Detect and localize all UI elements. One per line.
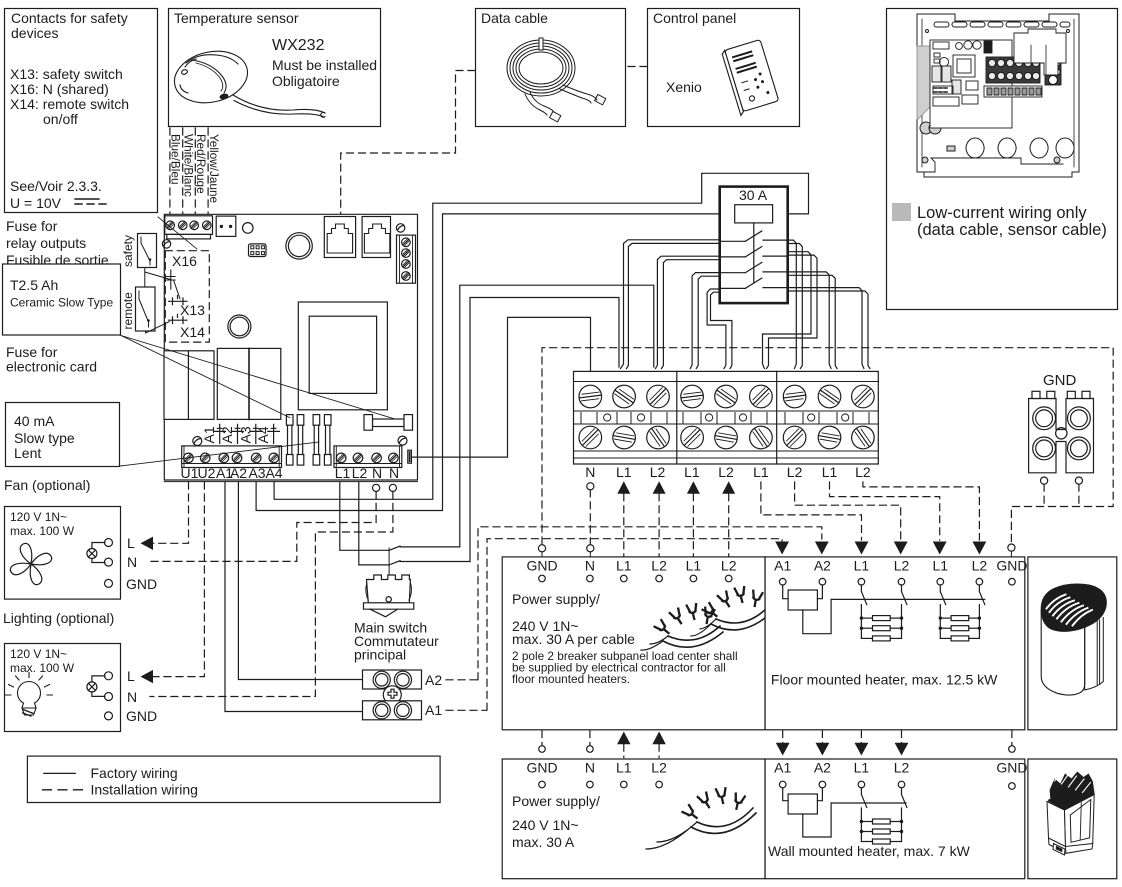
wire A2 riser to connector A2	[238, 482, 362, 680]
svg-text:U = 10V: U = 10V	[10, 195, 62, 211]
svg-text:L2: L2	[352, 465, 368, 481]
wire switch output 1 to L2 terminal	[460, 285, 654, 547]
PCB right screw terminal	[397, 235, 416, 283]
legend box	[27, 756, 440, 802]
svg-text:N: N	[389, 465, 399, 481]
wire X16 to X13	[174, 280, 181, 299]
control panel Xenio drawing	[721, 40, 779, 116]
svg-text:A4: A4	[265, 465, 282, 481]
svg-text:X14: X14	[180, 324, 205, 340]
svg-text:max. 30 A per cable: max. 30 A per cable	[512, 631, 635, 647]
GND circle floor heater	[1008, 544, 1015, 551]
fan terminal N	[105, 558, 113, 566]
svg-text:L2: L2	[718, 464, 734, 480]
wire A1 riser to connector A1	[225, 482, 363, 712]
svg-text:WX232: WX232	[272, 37, 325, 54]
lighting lamp symbol	[87, 676, 105, 697]
svg-text:U1: U1	[181, 465, 199, 481]
svg-text:Wall mounted heater, max. 7 kW: Wall mounted heater, max. 7 kW	[768, 843, 971, 859]
svg-text:A3: A3	[248, 465, 265, 481]
svg-text:L2: L2	[855, 464, 871, 480]
breaker tie bar	[753, 223, 755, 283]
leader line T2.5 box to fuse F3	[121, 336, 395, 420]
wire L2 to main switch lower contact	[359, 482, 389, 565]
GND circle between rows	[541, 731, 543, 746]
lighting terminal labels	[126, 668, 157, 724]
svg-text:Slow type: Slow type	[14, 430, 75, 446]
PCB right edge component	[408, 450, 412, 463]
PCB N terminal stub circle 1	[373, 484, 380, 491]
svg-text:Red/Rouge: Red/Rouge	[194, 134, 208, 194]
fuse for relay outputs label	[6, 218, 109, 268]
svg-text:N: N	[585, 760, 595, 776]
L2 arrow up between rows	[652, 732, 665, 745]
arrow power feed up into block column x=623.8	[617, 481, 630, 494]
N column circle below block	[587, 483, 594, 490]
svg-text:X14: remote switch: X14: remote switch	[10, 96, 129, 112]
svg-text:safety: safety	[121, 235, 135, 267]
sensor wire labels	[169, 134, 221, 204]
svg-text:L1: L1	[753, 464, 769, 480]
arrow power feed up into block column x=693.4	[687, 481, 700, 494]
wire L1 to main switch upper contact	[340, 482, 389, 550]
breaker body rect	[735, 205, 773, 223]
PCB top-right screw	[396, 224, 404, 232]
svg-text:L2: L2	[650, 464, 666, 480]
svg-text:floor mounted heaters.: floor mounted heaters.	[512, 672, 630, 686]
PCB pin post A4	[268, 424, 280, 443]
PCB N terminal stub circle 2	[389, 484, 396, 491]
lighting info box	[5, 644, 121, 732]
svg-text:L1: L1	[822, 464, 838, 480]
svg-text:X16: N (shared): X16: N (shared)	[10, 81, 109, 97]
svg-text:L2: L2	[972, 558, 988, 574]
svg-text:A1: A1	[774, 558, 791, 574]
PCB top-left screw	[162, 240, 170, 248]
wire N power supply to block (dashed)	[589, 490, 591, 545]
PCB output terminal U1 U2 A1 A2 A3 A4	[182, 446, 282, 468]
floor heater element group 1	[860, 605, 904, 641]
fuse F1 relay output fuse a	[286, 415, 293, 466]
arrow feed down into wall heater x=861.4	[860, 731, 862, 744]
svg-text:devices: devices	[11, 25, 58, 41]
svg-text:GND: GND	[1043, 372, 1077, 389]
svg-text:U2: U2	[198, 465, 216, 481]
breaker pole 4	[720, 278, 788, 288]
PCB RJ jack 1	[324, 217, 355, 258]
GND wire right circle riser (dashed)	[1078, 484, 1080, 506]
control unit cable glands illustration	[947, 138, 1074, 158]
svg-text:on/off: on/off	[43, 111, 78, 127]
PCB small circle	[243, 223, 254, 234]
wire block column to floor heater (dashed step 1)	[761, 482, 862, 540]
PCB RJ jack 2	[362, 217, 390, 258]
svg-text:120 V 1N~: 120 V 1N~	[10, 647, 67, 661]
svg-text:Data cable: Data cable	[481, 10, 548, 26]
svg-text:L1: L1	[616, 464, 632, 480]
floor heater element group 2	[939, 605, 982, 641]
svg-text:Fuse for: Fuse for	[6, 218, 58, 234]
svg-text:Temperature sensor: Temperature sensor	[174, 10, 299, 26]
GND wall heater circle above box	[1011, 731, 1013, 746]
control panel info box	[648, 9, 800, 127]
wire block column to floor heater (dashed step 3)	[830, 482, 940, 540]
fan terminal L	[105, 539, 113, 547]
svg-text:L2: L2	[651, 558, 667, 574]
control PCB outline	[164, 214, 417, 481]
svg-text:max. 30 A: max. 30 A	[512, 834, 575, 850]
fan lamp symbol	[87, 543, 105, 563]
svg-text:Power supply/: Power supply/	[512, 591, 600, 607]
fan terminal labels	[126, 535, 157, 592]
svg-text:A1: A1	[774, 760, 791, 776]
PCB 6-pin header	[249, 244, 267, 257]
arrow A1 into floor heater	[775, 542, 789, 555]
main switch label	[354, 620, 439, 663]
GND block output circles	[1041, 477, 1048, 484]
feeder pair L2 column to breaker pole 2	[656, 256, 720, 368]
fan icon	[4, 537, 58, 591]
control unit enclosure illustration	[917, 14, 1079, 177]
fuse F1 relay output fuse b	[297, 415, 304, 466]
svg-text:A2: A2	[230, 465, 247, 481]
svg-text:GND: GND	[526, 760, 557, 776]
svg-text:A1: A1	[425, 702, 442, 718]
data cable coil drawing	[507, 38, 606, 122]
leader line 40mA box to fuse F2	[120, 442, 319, 466]
lighting terminal GND	[105, 712, 113, 720]
svg-text:X13: safety switch: X13: safety switch	[10, 66, 123, 82]
sensor wire Yellow/Jaune (dashed)	[207, 128, 209, 215]
fuse F3 horizontal fuse	[364, 415, 413, 431]
GND route dashed separator	[542, 348, 1113, 544]
connector A1	[363, 701, 422, 720]
wall heater switch blade at 861.4	[861, 788, 866, 808]
fuse F2 electronic card fuse b	[324, 415, 331, 466]
wire safety to remote	[144, 268, 146, 288]
svg-text:Power supply/: Power supply/	[512, 793, 600, 809]
floor heater image box	[1028, 557, 1117, 730]
safety switch contact	[138, 234, 157, 268]
low-current wiring legend text	[917, 204, 1107, 239]
svg-text:Yellow/Jaune: Yellow/Jaune	[207, 134, 221, 204]
svg-text:X13: X13	[180, 302, 205, 318]
PCB bottom-right screw	[398, 436, 407, 445]
main switch lower contact	[389, 561, 470, 565]
feeder pair L1b column to breaker pole 3	[690, 273, 720, 369]
sensor wire White/Blanc (dashed)	[182, 128, 184, 215]
wire A4 riser over 30A box to breaker right	[274, 173, 808, 499]
svg-text:A2: A2	[425, 672, 442, 688]
floor heater drawing	[1041, 584, 1107, 695]
svg-text:(data cable, sensor cable): (data cable, sensor cable)	[917, 221, 1107, 239]
svg-text:X16: X16	[172, 253, 197, 269]
svg-text:electronic card: electronic card	[6, 359, 97, 375]
PCB round capacitor	[228, 315, 251, 338]
main switch upper contact	[389, 546, 460, 550]
svg-text:L1: L1	[933, 558, 949, 574]
svg-text:A3: A3	[237, 426, 253, 443]
svg-text:L1: L1	[854, 760, 870, 776]
dashed wire data cable box to PCB RJ jack	[341, 71, 475, 215]
temperature sensor WX232 drawing	[169, 44, 325, 117]
floor heater contact bus	[831, 598, 985, 600]
svg-text:Must be installed: Must be installed	[272, 57, 377, 73]
X13 jumper pin	[169, 296, 188, 305]
svg-text:Floor mounted heater, max. 12.: Floor mounted heater, max. 12.5 kW	[771, 672, 998, 688]
svg-text:A2: A2	[814, 558, 831, 574]
connector A2	[363, 670, 422, 689]
svg-text:max. 100 W: max. 100 W	[10, 524, 75, 538]
svg-text:Low-current wiring only: Low-current wiring only	[917, 204, 1087, 222]
svg-text:T2.5 Ah: T2.5 Ah	[10, 277, 58, 293]
terminal block screws row 1	[574, 381, 874, 413]
PCB bottom-left screw	[193, 437, 202, 446]
L1 arrow up between rows	[617, 732, 630, 745]
svg-text:remote: remote	[121, 292, 135, 330]
wire N1 to fan N (dashed)	[150, 492, 376, 562]
svg-text:120 V 1N~: 120 V 1N~	[10, 510, 67, 524]
X14 jumper pin	[169, 314, 188, 323]
svg-text:L: L	[127, 668, 135, 684]
fuse F2 electronic card fuse a	[313, 415, 320, 466]
PCB pin post A3	[250, 424, 262, 443]
wire block column to floor heater (dashed step 4)	[863, 482, 980, 540]
supply terminal block	[574, 371, 879, 464]
gray legend swatch	[892, 203, 911, 221]
wire A3 riser to breaker left	[256, 214, 735, 511]
PCB toroid coil	[286, 233, 312, 259]
svg-text:Xenio: Xenio	[666, 79, 702, 95]
wire N supply from PCB to terminal block N	[412, 317, 591, 457]
lighting L arrowhead	[141, 670, 154, 683]
data cable info box	[476, 9, 626, 127]
N supply circle	[587, 545, 594, 552]
wire switch output 2 to L1 terminal	[470, 298, 619, 562]
wall heater drawing	[1047, 772, 1095, 856]
control unit contactor illustration	[1014, 29, 1066, 75]
wire U2 to lighting L (dashed)	[152, 482, 204, 677]
arrow A2 into floor heater	[815, 542, 829, 555]
svg-text:GND: GND	[526, 558, 557, 574]
load pair breaker pole 2 to L1c column	[763, 252, 812, 369]
svg-text:240 V 1N~: 240 V 1N~	[512, 817, 579, 833]
svg-text:A1: A1	[201, 426, 217, 443]
remote switch contact	[136, 287, 156, 331]
wall heater element group	[860, 808, 904, 844]
svg-text:See/Voir 2.3.3.: See/Voir 2.3.3.	[10, 178, 102, 194]
PCB relay block 2	[217, 348, 280, 419]
arrow feed down into wall heater x=901.5	[901, 731, 903, 744]
svg-text:relay outputs: relay outputs	[6, 235, 86, 251]
load pair breaker pole 1 to L2c column	[788, 240, 797, 368]
terminal block mid links	[581, 413, 869, 424]
breaker pole 2	[720, 247, 788, 257]
floor heater switch blade at 979.4	[979, 585, 984, 605]
svg-text:GND: GND	[126, 708, 157, 724]
GND terminal block	[1029, 391, 1094, 473]
connector plus clip	[383, 686, 401, 704]
PCB terminal labels U1 U2 A1 A2 A3 A4	[181, 465, 283, 481]
svg-text:Ceramic Slow Type: Ceramic Slow Type	[10, 296, 113, 310]
GND supply circle	[538, 545, 545, 552]
N circle between rows	[589, 731, 591, 746]
svg-text:N: N	[127, 689, 137, 705]
temperature sensor info box	[169, 9, 381, 127]
svg-text:Installation wiring: Installation wiring	[91, 782, 198, 798]
svg-text:A4: A4	[255, 426, 271, 443]
wire A1 to heater bus (dashed)	[446, 539, 782, 711]
wire A2 to heater bus (dashed)	[446, 527, 822, 680]
svg-text:30 A: 30 A	[739, 187, 768, 203]
fuse 40 mA info box	[6, 403, 120, 467]
wall heater contact bus	[831, 802, 906, 804]
X16 jumper pin	[167, 270, 176, 289]
svg-text:GND: GND	[996, 558, 1027, 574]
arrow feed down into wall heater x=782.7	[782, 731, 784, 744]
supply cable lugs drawing 1	[641, 587, 771, 650]
wire N2 to lighting N (dashed)	[150, 492, 393, 697]
arrow power feed up into block column x=728.7	[722, 481, 735, 494]
wire block column to floor heater (dashed step 2)	[795, 482, 901, 540]
svg-text:N: N	[127, 554, 137, 570]
sensor wire Red/Rouge (dashed)	[194, 128, 196, 215]
svg-text:White/Blanc: White/Blanc	[181, 134, 195, 197]
svg-text:N: N	[585, 464, 595, 480]
terminal block screws row 2	[579, 422, 876, 453]
svg-text:40 mA: 40 mA	[14, 413, 55, 429]
low-current wiring info box	[887, 9, 1118, 310]
terminal block column labels	[585, 464, 871, 480]
GND wire to floor heater (dashed)	[1043, 484, 1045, 506]
svg-text:Blue/Bleu: Blue/Bleu	[169, 134, 183, 185]
svg-text:Lent: Lent	[14, 445, 41, 461]
svg-text:L2: L2	[894, 558, 910, 574]
contacts-for-safety-devices info box	[5, 9, 158, 213]
svg-text:A2: A2	[219, 426, 235, 443]
leader line T2.5 box to fuse F1	[121, 336, 290, 418]
svg-text:Lighting (optional): Lighting (optional)	[3, 610, 114, 626]
lighting terminal N	[105, 693, 113, 701]
svg-text:L1: L1	[684, 464, 700, 480]
svg-text:L: L	[127, 535, 135, 551]
svg-text:L2: L2	[651, 760, 667, 776]
svg-text:L1: L1	[335, 465, 351, 481]
svg-text:GND: GND	[996, 760, 1027, 776]
svg-text:Factory wiring: Factory wiring	[91, 765, 178, 781]
floor heater switch blade at 861.4	[861, 585, 866, 605]
floor mounted heater box	[765, 557, 1027, 730]
wall heater contactor coil	[783, 788, 831, 837]
load pair breaker pole 3 to L1d column	[788, 272, 831, 369]
power supply box (wall heater)	[502, 759, 765, 879]
svg-text:principal: principal	[354, 647, 406, 663]
PCB pin post A2	[232, 424, 244, 443]
svg-text:L1: L1	[686, 558, 702, 574]
control unit terminal rows illustration	[984, 57, 1061, 97]
svg-text:Obligatoire: Obligatoire	[272, 73, 340, 89]
dashed link data cable to control panel	[628, 66, 647, 68]
svg-text:A2: A2	[814, 760, 831, 776]
leader line fuse label to PCB	[158, 217, 197, 249]
supply cable lugs drawing 2	[646, 788, 756, 849]
control unit inner PCB illustration	[930, 40, 1012, 128]
main switch rocker drawing	[364, 548, 414, 617]
load pair breaker pole 4 to L2d column	[788, 288, 864, 369]
wall heater switch blade at 901.5	[902, 788, 907, 808]
30A breaker box	[720, 187, 788, 304]
wall heater image box	[1028, 759, 1117, 879]
svg-text:GND: GND	[126, 576, 157, 592]
floor heater switch blade at 901.5	[902, 585, 907, 605]
wire remote to X14	[146, 322, 170, 333]
PCB transformer	[298, 302, 387, 410]
wire U1 to fan L (dashed)	[152, 482, 189, 543]
feeder pair L2b column to breaker pole 4	[707, 289, 726, 369]
wire safety to X16	[145, 272, 171, 280]
X16 X13 X14 dashed outline	[165, 251, 209, 342]
fan L arrowhead	[141, 537, 154, 550]
fuse T2.5 Ah info box	[3, 264, 121, 335]
svg-text:Contacts for safety: Contacts for safety	[11, 10, 128, 26]
PCB mains terminal L1 L2 N N	[334, 446, 402, 468]
sensor wire Blue/Bleu (dashed)	[169, 128, 171, 215]
feeder pair L1 column to breaker pole 1	[621, 240, 720, 369]
light bulb icon	[6, 673, 53, 717]
svg-text:N: N	[372, 465, 382, 481]
PCB relay block 1	[164, 351, 214, 420]
lighting terminal L	[105, 672, 113, 680]
arrow power feed up into block column x=659.1	[653, 481, 666, 494]
svg-text:L1: L1	[616, 558, 632, 574]
svg-text:N: N	[585, 558, 595, 574]
floor heater switch blade at 940.3	[940, 585, 945, 605]
wall mounted heater box	[765, 759, 1027, 879]
svg-text:max. 100 W: max. 100 W	[10, 661, 75, 675]
svg-text:L1: L1	[854, 558, 870, 574]
svg-text:Control panel: Control panel	[653, 10, 736, 26]
PCB 2-pin connector	[216, 216, 236, 236]
svg-text:L2: L2	[721, 558, 737, 574]
fuse for electronic card label	[6, 344, 97, 375]
svg-text:L1: L1	[616, 760, 632, 776]
svg-text:L2: L2	[787, 464, 803, 480]
fan info box	[5, 507, 121, 600]
breaker pole 3	[720, 262, 788, 272]
power supply box (floor heaters)	[502, 557, 765, 730]
PCB sensor terminal X-strip	[165, 216, 213, 239]
PCB terminal labels L1 L2 N N	[335, 465, 399, 481]
arrow feed down into wall heater x=822.4	[821, 731, 823, 744]
breaker pole 1	[720, 231, 788, 241]
svg-text:L2: L2	[894, 760, 910, 776]
floor heater contactor coil	[783, 585, 831, 634]
PCB pin post A1	[214, 424, 226, 443]
fan terminal GND	[105, 579, 113, 587]
svg-text:Fan (optional): Fan (optional)	[4, 477, 90, 493]
